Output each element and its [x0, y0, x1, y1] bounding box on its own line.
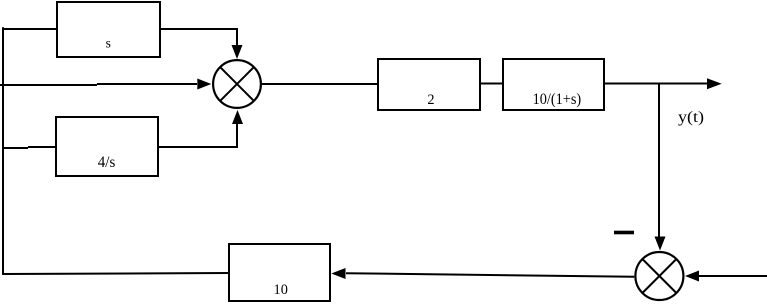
svg-text:s: s — [106, 35, 111, 50]
svg-text:2: 2 — [427, 92, 434, 108]
svg-text:4/s: 4/s — [98, 154, 116, 171]
svg-text:10/(1+s): 10/(1+s) — [533, 91, 582, 108]
svg-text:10: 10 — [274, 282, 288, 298]
svg-text:y(t): y(t) — [678, 109, 704, 126]
